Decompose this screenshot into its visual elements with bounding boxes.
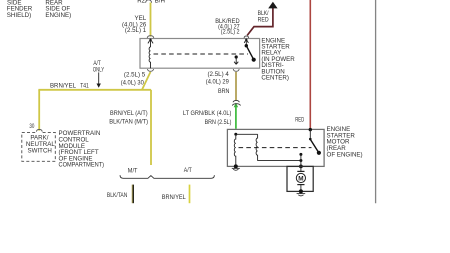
wire BRN from relay pin 4/29 bbox=[235, 72, 237, 101]
svg-text:T41: T41 bbox=[80, 83, 89, 90]
svg-text:COMPARTMENT): COMPARTMENT) bbox=[59, 162, 105, 169]
relay box bbox=[140, 39, 260, 69]
wire YEL vertical bbox=[150, 3, 152, 37]
connector arc relay pin 4/29 bbox=[233, 69, 239, 71]
ground symbol motor bbox=[297, 193, 306, 195]
arrow LT GRN/BLK up bbox=[234, 103, 238, 108]
label pin 5/30 bbox=[121, 72, 146, 87]
svg-text:LT GRN/BLK (4.0L): LT GRN/BLK (4.0L) bbox=[183, 110, 232, 117]
label YEL pin 26/1 bbox=[122, 15, 147, 34]
svg-text:CENTER): CENTER) bbox=[261, 75, 289, 82]
wire BLK/RED to battery bbox=[247, 8, 273, 35]
arrow A/T only bbox=[98, 72, 100, 84]
connector arc relay pin 1/26 bbox=[147, 36, 154, 38]
svg-text:M: M bbox=[298, 175, 303, 182]
svg-text:(2.5L) 4: (2.5L) 4 bbox=[208, 71, 230, 78]
label BLK/RED pin 27/2 bbox=[215, 18, 240, 36]
svg-text:RED: RED bbox=[258, 16, 269, 23]
svg-text:(2.5L) 1: (2.5L) 1 bbox=[125, 27, 147, 34]
relay name text bbox=[261, 37, 295, 81]
svg-text:BRN (2.5L): BRN (2.5L) bbox=[205, 119, 232, 126]
wire BRN/YEL stub bbox=[189, 185, 191, 204]
wire BRN/YEL down centre bbox=[150, 90, 152, 165]
arrow BLK/RED up bbox=[268, 2, 277, 9]
svg-text:B/H: B/H bbox=[155, 0, 165, 4]
label engine starter motor bbox=[327, 126, 363, 158]
solenoid coil 2 bbox=[256, 134, 301, 160]
svg-text:BRN: BRN bbox=[218, 88, 230, 95]
svg-text:30: 30 bbox=[29, 123, 34, 130]
connector label (cut off at top edge) bbox=[137, 0, 165, 4]
label LT GRN/BLK / BRN bbox=[183, 110, 232, 126]
connector arc relay pin 5/30 bbox=[148, 69, 154, 71]
svg-text:R2: R2 bbox=[137, 0, 145, 4]
ground symbol left bbox=[232, 167, 240, 169]
relay coil bbox=[149, 47, 150, 68]
svg-text:BRN/YEL (A/T): BRN/YEL (A/T) bbox=[110, 110, 148, 117]
relay switch bbox=[245, 39, 247, 41]
motor feed column dots bbox=[299, 153, 302, 156]
park/neutral switch box (dashed) bbox=[22, 132, 56, 161]
structural divider line bbox=[375, 0, 377, 203]
wire RED from top bbox=[309, 0, 311, 129]
wire BRN/YEL down to PNP switch bbox=[38, 90, 40, 131]
motor sub-box bbox=[287, 166, 313, 191]
wire BLK/TAN stub bbox=[131, 185, 133, 204]
svg-text:ENGINE): ENGINE) bbox=[45, 12, 71, 19]
branch to coil 2 bbox=[236, 133, 258, 135]
svg-text:A/T: A/T bbox=[184, 167, 192, 174]
engine starter motor box bbox=[227, 129, 324, 166]
svg-text:BRN/YEL: BRN/YEL bbox=[162, 194, 187, 201]
connector symbol (cut off at top edge) bbox=[146, 0, 152, 3]
svg-text:SHIELD): SHIELD) bbox=[7, 12, 31, 19]
split brace M/T A/T bbox=[120, 175, 214, 178]
svg-text:SWITCH: SWITCH bbox=[28, 147, 52, 154]
connector arc PNP pin 30 bbox=[36, 129, 42, 131]
svg-text:RED: RED bbox=[295, 117, 304, 124]
junction dot green wire bbox=[234, 133, 237, 136]
wire BRN/YEL from relay pin 5/30 bbox=[142, 72, 151, 90]
svg-text:(2.5L) 2: (2.5L) 2 bbox=[221, 29, 240, 36]
note text (rear side of engine) bbox=[45, 0, 71, 19]
svg-text:(4.0L) 29: (4.0L) 29 bbox=[206, 79, 230, 86]
note text (left fender shield) bbox=[7, 0, 33, 19]
dot motor ground bbox=[299, 189, 303, 193]
linkage dashed motor bbox=[239, 147, 312, 149]
label pin 4/29 BRN bbox=[206, 71, 230, 95]
svg-text:OF ENGINE): OF ENGINE) bbox=[327, 151, 363, 158]
motor M bbox=[297, 170, 304, 172]
relay linkage dashed bbox=[154, 53, 249, 55]
relay pin 1 arrow bbox=[149, 39, 151, 41]
label powertrain control module bbox=[59, 130, 105, 169]
wire LT GRN/BLK bbox=[235, 107, 237, 129]
svg-text:BLK/TAN (M/T): BLK/TAN (M/T) bbox=[109, 118, 148, 125]
relay pin 4/29 bbox=[235, 55, 238, 58]
solenoid coil 1 bbox=[234, 136, 236, 167]
svg-text:M/T: M/T bbox=[128, 167, 138, 174]
connector arc relay pin 2/27 bbox=[244, 36, 249, 38]
wire BRN/YEL horizontal T41 bbox=[38, 89, 151, 91]
svg-text:(2.5L) 5: (2.5L) 5 bbox=[124, 72, 146, 79]
svg-text:ONLY: ONLY bbox=[93, 66, 104, 73]
junction dot ground bbox=[234, 164, 238, 168]
motor switch bbox=[309, 128, 312, 131]
svg-text:(4.0L) 30: (4.0L) 30 bbox=[121, 80, 145, 87]
svg-text:BLK/TAN: BLK/TAN bbox=[107, 192, 128, 199]
svg-text:BRN/YEL: BRN/YEL bbox=[50, 82, 77, 89]
label BRN/YEL (A/T) / BLK/TAN (M/T) bbox=[109, 110, 148, 125]
